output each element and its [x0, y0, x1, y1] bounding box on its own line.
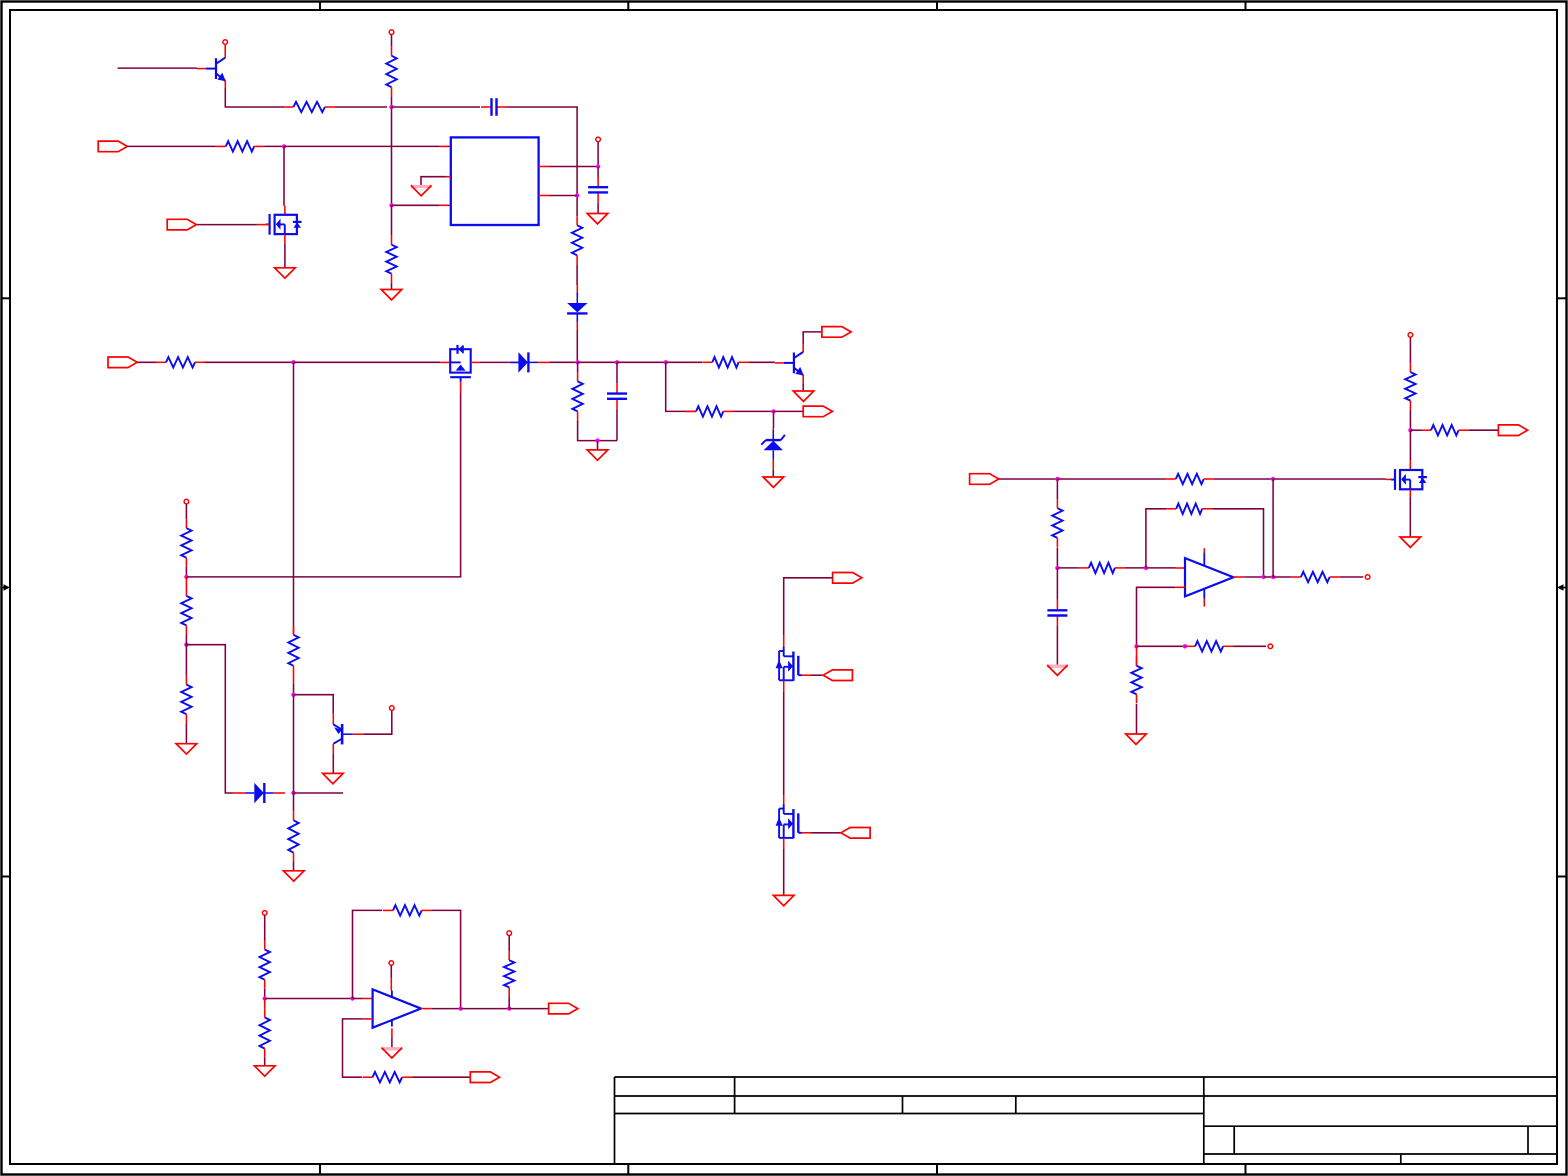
wire node K to Q3 [294, 695, 334, 714]
wire M4 drain lead [783, 635, 785, 647]
wire node O to flag VO2 [509, 1008, 548, 1010]
wire U2 -in to R18 [343, 1019, 363, 1077]
junction ground rail [595, 438, 599, 442]
ground GND Z1 [763, 477, 784, 487]
wire M3 drain lead [1409, 461, 1411, 470]
wire Q3 collector lead [332, 744, 334, 753]
wire R26 to pin P10 [1340, 576, 1364, 578]
junction node G [771, 409, 775, 413]
wire U1 pin5 lead [539, 166, 549, 168]
wire node I to R14 [185, 645, 187, 676]
resistor R1 [283, 102, 335, 112]
resistor R16 [260, 1008, 270, 1057]
wire node R to C4 [1056, 568, 1058, 600]
junction node S [1144, 566, 1148, 570]
transistor Q1 [197, 58, 226, 81]
pin P6 (U2 ref) [262, 911, 267, 916]
transistor M4 (N-MOSFET) [776, 647, 802, 681]
wire U2 out lead [421, 1008, 432, 1010]
ground GND R13 [283, 871, 304, 881]
resistor R4 [216, 141, 264, 151]
wire C3 to ground rail [616, 409, 618, 440]
wire node V to R26 [1273, 576, 1291, 578]
port flag FB [803, 406, 832, 417]
pin P4 (ref supply) [184, 499, 189, 504]
wire R16 to ground [264, 1058, 266, 1066]
port flag OUT_C [822, 327, 851, 338]
junction node T2 [1183, 644, 1187, 648]
wire R19 to node O [508, 996, 510, 1008]
wire node E column [293, 362, 295, 626]
wire Z1 anode lead [772, 460, 774, 470]
IC U1 (regulator) [451, 137, 539, 225]
wire C4 to ground [1056, 626, 1058, 665]
wire node J to R13 [293, 793, 295, 811]
wire C1 to column D1 [507, 107, 577, 216]
junction node L [263, 996, 267, 1000]
ground GND Q2 [793, 391, 814, 401]
wire R10 to node H [185, 567, 187, 577]
transistor Q2 [775, 352, 804, 376]
resistor R9 [702, 357, 748, 367]
junction node A [389, 105, 393, 109]
wire Q2 collector lead [802, 344, 804, 352]
port flag VSW [833, 573, 862, 584]
wire D2 cathode lead [538, 361, 549, 363]
junction IC pin6 on column D1 [575, 193, 579, 197]
resistor R15 [260, 941, 270, 989]
diode D3 [246, 783, 274, 804]
transistor Q3 (PNP) [333, 724, 363, 744]
transistor M3 (P-MOSFET) [1391, 469, 1427, 490]
wire U1 pin6 lead [539, 195, 549, 197]
wire R12 to node K [293, 684, 295, 695]
wire R23 to output column [1212, 509, 1263, 577]
pin P9 (gain set) [1268, 644, 1273, 649]
wire node W to M3 drain [1409, 430, 1411, 461]
wire node R to R22 [1057, 567, 1079, 569]
resistor R7 [572, 372, 582, 420]
junction node E [291, 360, 295, 364]
junction node B2 [615, 360, 619, 364]
wire D3 cathode lead [274, 792, 285, 794]
wire CTRL to node P [999, 478, 1058, 480]
wire node A to U1 pin3 column [391, 107, 393, 205]
ground GND M5 [773, 895, 794, 905]
wire junction to U1 pin3 [392, 204, 440, 206]
resistor R2 [386, 47, 396, 96]
wire node I to D3 [186, 645, 232, 793]
wire U2 -in lead [363, 1018, 373, 1020]
ground GND R5 [381, 290, 402, 300]
port flag IN1 [98, 141, 127, 152]
wire P7 lead [390, 965, 392, 977]
wire P3 to node D [597, 142, 599, 167]
wire node W to R28 [1410, 429, 1421, 431]
wire M2 gate to SHDN flag [196, 224, 257, 226]
junction node T [1134, 644, 1138, 648]
power ground AGND C4 [1047, 665, 1068, 675]
ground GND Q3 [323, 773, 344, 783]
wire M1 source lead [440, 361, 450, 363]
wire Q2 emitter to ground [802, 383, 804, 391]
wire node V to node Q column [1272, 479, 1274, 577]
junction node O [507, 1006, 511, 1010]
wire D3 anode lead [233, 792, 247, 794]
resistor R6 [156, 357, 205, 367]
wire R18 to flag FB2 [412, 1076, 470, 1078]
wire M4 source to M5 drain [783, 692, 785, 796]
wire U2 V- red lead [391, 1028, 393, 1038]
wire node F to R9 [666, 361, 702, 363]
wire R28 to flag OUT3 [1469, 429, 1499, 431]
wire Q1 emitter to R1 [225, 88, 284, 107]
wire M5 source lead [783, 838, 785, 849]
wire node P to R20 [1057, 478, 1165, 480]
wire M5 gate to flag [811, 832, 841, 834]
capacitor C4 [1047, 600, 1067, 626]
transistor M1 (P-MOSFET pass) [450, 345, 471, 382]
wire VSW to M4 drain [784, 578, 833, 635]
resistor R28 [1421, 425, 1469, 435]
junction node U [1261, 575, 1265, 579]
port flag VO2 [549, 1003, 578, 1014]
wire node G to Z1 [773, 411, 775, 428]
pin P3 (VOUT sense) [596, 137, 601, 142]
wire U1 pin2 lead [446, 176, 451, 178]
wire Q3 collector to ground [332, 753, 334, 773]
resistor R3 [572, 216, 582, 264]
junction node V [1271, 575, 1275, 579]
wire U3 out to node U [1244, 576, 1263, 578]
wire M1 gate lead [460, 382, 462, 393]
wire node E to M1 [294, 361, 441, 363]
transistor M2 (P-MOSFET) [266, 214, 302, 235]
transistor M5 (N-MOSFET) [776, 804, 802, 838]
wire R7 to ground rail [578, 420, 617, 440]
wire U1 pin3 lead [440, 204, 451, 206]
wire M5 source to ground [783, 849, 785, 895]
wire rail to ground [597, 441, 599, 450]
wire node B2 to node F [617, 361, 666, 363]
wire U3 -in lead [1175, 586, 1185, 588]
wire D2 to node B [549, 361, 577, 363]
op-amp U3 [1185, 548, 1233, 606]
wire C2 to ground [597, 203, 599, 214]
junction node B [575, 360, 579, 364]
wire M3 gate lead [1386, 478, 1396, 480]
junction node D [596, 164, 600, 168]
wire R20 to node Q [1214, 478, 1273, 480]
resistor R11 [181, 587, 191, 635]
wire node H to M1 gate [186, 393, 460, 577]
ground GND M2 [275, 268, 296, 278]
wire P8 lead [508, 936, 510, 952]
wire R27 to node W [1409, 410, 1411, 431]
pin P7 (U2 V+) [389, 961, 394, 966]
resistor R14 [181, 676, 191, 724]
wire P6 lead [264, 915, 266, 940]
wire node C to U1 pin1 [284, 145, 440, 147]
wire Q1 base [118, 67, 197, 69]
resistor R17 [383, 905, 432, 915]
port flag G2 [841, 828, 870, 839]
resistor R26 [1291, 572, 1340, 582]
wire U1 pin1 lead [440, 145, 451, 147]
wire R5 to ground [391, 283, 393, 290]
resistor R20 [1166, 474, 1214, 484]
wire R8 to node G [733, 410, 773, 412]
pin P10 (comp out) [1365, 575, 1370, 580]
wire Q2 emitter lead [802, 375, 804, 384]
wire D2 anode lead [510, 361, 519, 363]
wire R21 to node R [1056, 547, 1058, 568]
wire Z1 to ground [772, 470, 774, 477]
wire node L to R16 [264, 999, 266, 1009]
capacitor C1 [481, 98, 507, 116]
wire M2 drain lead [284, 206, 286, 215]
junction node H [184, 575, 188, 579]
wire M3 source to ground [1409, 497, 1411, 537]
junction node I [184, 643, 188, 647]
wire R2 to node A [391, 96, 393, 107]
wire node I stub [185, 634, 187, 644]
junction node Q [1271, 477, 1275, 481]
wire node M to U2 [353, 998, 363, 1000]
wire M2 source lead [284, 234, 286, 243]
wire node T to node T2 [1137, 645, 1185, 647]
wire Q1 emitter lead [224, 81, 226, 89]
junction node C [282, 144, 286, 148]
ground GND R16 [254, 1066, 275, 1076]
pin P8 (pull-up supply) [507, 931, 512, 936]
wire R24 to pin P9 [1233, 645, 1266, 647]
wire U1 pin6 to column D1 [549, 195, 577, 197]
wire M1 drain lead [471, 361, 480, 363]
wire P4 lead [185, 504, 187, 519]
wire node B to R7 [577, 362, 579, 372]
ground GND RC [587, 450, 608, 460]
wire Q3 emitter lead [332, 714, 334, 725]
wire M2 source to ground [284, 244, 286, 268]
wire M5 gate lead [802, 832, 811, 834]
ground GND C2 [587, 214, 608, 224]
wire node A column to R5 [391, 205, 393, 235]
wire R25 to ground [1136, 704, 1138, 734]
wire R3 to D1 [576, 264, 578, 285]
wire node H to R11 [185, 577, 187, 588]
wire node P to R21 lead [1056, 479, 1058, 499]
wire U2 V- to ground [391, 1038, 393, 1048]
wire U2 V+ red lead [390, 978, 392, 991]
resistor R12 [288, 626, 298, 675]
ground GND R25 [1126, 734, 1147, 744]
wire R13 to ground [293, 862, 295, 871]
wire feedback node S loop [1146, 509, 1166, 568]
resistor R25 [1131, 657, 1141, 704]
wire R1 to node A [335, 106, 387, 108]
wire U3 -in loop [1137, 587, 1176, 646]
ground GND R14 [176, 744, 197, 754]
wire M4 source lead [783, 681, 785, 692]
port flag G1 [823, 670, 852, 681]
wire M2 gate lead [257, 224, 269, 226]
wire R15 to node L [264, 989, 266, 999]
junction node P [1055, 477, 1059, 481]
junction node K [291, 693, 295, 697]
wire M4 gate lead [802, 674, 811, 676]
junction node W [1408, 428, 1412, 432]
wire U1 pin5 to node D [549, 166, 598, 168]
resistor R21 [1052, 499, 1062, 547]
wire node A to C1 [392, 106, 481, 108]
wire D1 cathode lead [576, 323, 578, 330]
wire M1 drain to D2 [480, 361, 510, 363]
diode D2 [510, 352, 538, 373]
wire P2 lead [391, 35, 393, 47]
port flag OUT3 [1498, 425, 1527, 436]
capacitor C2 [588, 177, 608, 203]
wire R17 to output column [432, 910, 461, 1008]
wire node B to node B2 [578, 361, 617, 363]
resistor R27 [1405, 363, 1415, 410]
wire node Q to M3 gate [1273, 478, 1386, 480]
wire R4 to node C [264, 145, 284, 147]
wire U2 +in lead [363, 998, 373, 1000]
wire M3 source lead [1409, 490, 1411, 497]
wire M5 drain lead [783, 796, 785, 805]
wire Z1 cathode lead [772, 428, 774, 430]
wire node K to node J [293, 695, 295, 793]
port flag CTRL [970, 474, 999, 485]
junction node R [1055, 566, 1059, 570]
wire feedback node M loop [353, 910, 383, 998]
wire U2 out to node N [432, 1008, 461, 1010]
wire node S to U3 [1146, 567, 1176, 569]
junction node N [458, 1006, 462, 1010]
wire R9 to Q2 base [749, 361, 775, 363]
wire node N to node O [461, 1008, 510, 1010]
resistor R13 [288, 811, 298, 861]
wire node U to node V [1264, 576, 1274, 578]
wire node G to flag FB [774, 410, 804, 412]
wire node F to R8 [666, 362, 696, 411]
port flag VIN [108, 357, 137, 368]
port flag SHDN [167, 219, 196, 230]
diode D1 [567, 293, 587, 323]
pin P1 (Q1 collector supply) [223, 40, 228, 45]
resistor R23 [1166, 504, 1212, 514]
zener diode Z1 [761, 430, 785, 460]
wire node D to C2 [597, 167, 599, 178]
wire Q3 base to pin [363, 710, 392, 734]
op-amp U2 [373, 989, 421, 1027]
resistor R19 [504, 951, 514, 996]
junction node M [350, 996, 354, 1000]
pin P2 (bias supply) [389, 30, 394, 35]
wire Q2 collector to flag [803, 332, 822, 344]
power ground AGND U2 [382, 1048, 403, 1058]
wire M4 gate to flag [811, 674, 823, 676]
wire R6 to node E [205, 361, 294, 363]
junction U1 pin3 node [389, 203, 393, 207]
wire C3 to node B2 [616, 362, 618, 383]
wire D1 anode lead [576, 285, 578, 294]
pin P11 (M3 supply) [1408, 333, 1413, 338]
wire node T to R25 lead [1136, 646, 1138, 665]
wire D1 to node B [576, 330, 578, 362]
wire R12 lower lead [293, 674, 295, 684]
resistor R18 [363, 1072, 413, 1082]
ground GND M3 [1400, 537, 1421, 547]
wire R14 to ground [185, 723, 187, 744]
resistor R10 [181, 519, 191, 567]
resistor R22 [1079, 563, 1125, 573]
wire node E column lead [293, 626, 295, 634]
wire U3 +in lead [1176, 567, 1186, 569]
power ground AGND U1 [411, 185, 432, 195]
junction node F [664, 360, 668, 364]
wire Q1 collector lead [224, 44, 226, 58]
capacitor C3 [607, 383, 627, 409]
wire node J stub right [294, 792, 344, 794]
wire U1 pin2 to ground [421, 177, 446, 186]
wire VIN to R6 [137, 361, 156, 363]
junction node J [291, 791, 295, 795]
wire U3 out lead [1233, 576, 1244, 578]
resistor R5 (node A lower) [386, 236, 396, 283]
resistor R24 [1185, 641, 1233, 651]
wire IN1 to R4 [127, 145, 215, 147]
resistor R8 [686, 406, 733, 416]
wire P11 lead [1409, 337, 1411, 363]
port flag FB2 [470, 1072, 499, 1083]
wire R22 to node S [1125, 567, 1146, 569]
wire node C to M2 drain [283, 146, 285, 205]
wire node L to node M [265, 998, 353, 1000]
pin P5 (Q3 base bias) [390, 706, 395, 711]
